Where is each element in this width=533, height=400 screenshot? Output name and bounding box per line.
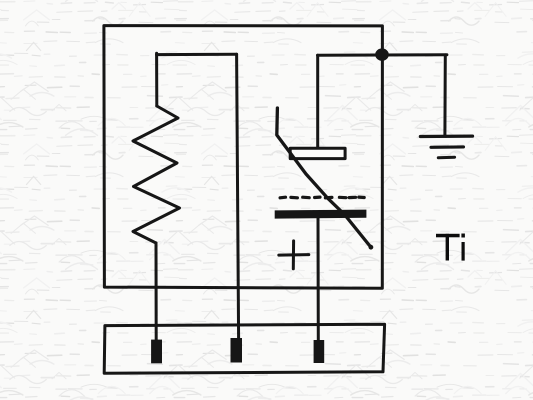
wire (terminal-2 lead from internal link) (237, 54, 239, 338)
node (junction dot on right wall) (375, 48, 389, 60)
capacitor C (dashed plate) (280, 196, 364, 200)
polarity + sign of capacitor (279, 241, 309, 269)
wire (breaker feed to right wall node and ground branch) (318, 53, 447, 57)
outer box (device housing) (104, 26, 383, 289)
capacitor C (solid plate) (275, 210, 367, 219)
ground symbol (420, 136, 472, 158)
wire (resistor bottom lead to terminal 1) (155, 243, 158, 340)
terminal pin 2 (231, 338, 243, 363)
wire (resistor top lead) (155, 53, 158, 106)
label Ti (terminal label) (436, 234, 465, 261)
resistor R (133, 106, 180, 243)
terminal block (104, 324, 384, 373)
wire (internal top link from resistor lead to terminal-2 lead) (157, 53, 237, 56)
wire (capacitor/breaker lead to terminal 3) (317, 217, 320, 340)
wire (vertical drop to fixed contact plate) (316, 55, 319, 147)
wire (ground lead, vertical) (443, 55, 446, 136)
contact plate (fixed contact of breaker) (290, 148, 345, 158)
terminal pin 3 (314, 340, 325, 363)
breaker lever (moving contact arm) (277, 108, 374, 250)
terminal pin 1 (151, 340, 162, 364)
